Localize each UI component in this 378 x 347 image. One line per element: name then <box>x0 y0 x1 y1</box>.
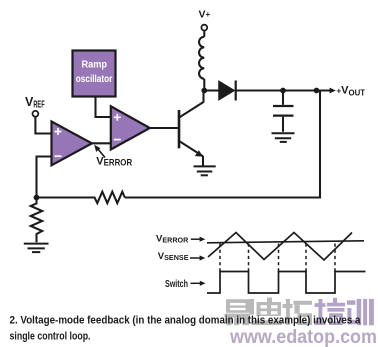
node divider junction <box>34 195 40 201</box>
waveform layer <box>156 233 366 294</box>
ground under divider <box>24 244 49 253</box>
watermark char di <box>250 298 283 326</box>
wire feedback from VOUT down and left to divider <box>125 91 320 198</box>
watermark layer <box>225 298 378 347</box>
label VERROR (waveform) with arrow <box>156 233 205 244</box>
op-amp U2 PWM comparator <box>111 106 150 149</box>
node feedback tap junction <box>314 88 320 94</box>
label Switch with arrow <box>165 278 206 290</box>
capacitor C1 <box>273 91 294 132</box>
wire diode to output with arrow <box>236 88 336 94</box>
wire VREF to error amp + input <box>35 117 51 134</box>
watermark char tuo <box>283 299 313 325</box>
wire error amp output to comparator - input <box>92 142 111 144</box>
label VERROR with arrow <box>94 145 132 168</box>
node V+ terminal <box>201 25 207 31</box>
Switch square waveform <box>207 272 366 294</box>
inductor L1 <box>199 31 204 91</box>
svg-text:Ramp: Ramp <box>82 60 108 71</box>
transistor Q1 <box>179 91 204 167</box>
resistor R1 feedback (horizontal) <box>37 192 125 204</box>
diode D1 <box>219 81 236 101</box>
dashed crossing lines <box>220 244 335 272</box>
svg-text:www.edatop.com: www.edatop.com <box>229 327 377 347</box>
node capacitor tap junction <box>280 88 286 94</box>
ground under transistor <box>194 166 216 175</box>
resistor R2 to ground (vertical) <box>31 198 43 243</box>
watermark char pei <box>315 298 346 325</box>
caption layer <box>10 315 362 343</box>
node VREF terminal <box>33 111 39 117</box>
watermark char yi <box>225 299 251 325</box>
svg-text:VREF: VREF <box>25 95 45 111</box>
schematic layer <box>24 9 366 253</box>
wire ramp oscillator to comparator + input <box>96 97 111 118</box>
wire feedback node to error amp - input <box>37 157 52 198</box>
wire junction to diode <box>204 89 219 91</box>
VSENSE triangle waveform <box>208 233 352 261</box>
Ramp oscillator U3 <box>73 51 116 97</box>
watermark char xun <box>347 299 374 325</box>
svg-text:V+: V+ <box>199 9 211 21</box>
wire comparator output to transistor base <box>150 127 178 129</box>
label VSENSE (waveform) with arrow <box>158 251 206 262</box>
VERROR level line <box>207 241 364 243</box>
junction node at switch/inductor/diode <box>201 88 207 94</box>
svg-text:VERROR: VERROR <box>96 155 132 167</box>
svg-text:+VOUT: +VOUT <box>337 85 366 98</box>
op-amp U1 error amplifier <box>52 122 92 166</box>
svg-text:VERROR: VERROR <box>156 233 189 244</box>
svg-text:VSENSE: VSENSE <box>158 251 189 262</box>
ground under capacitor <box>272 133 295 142</box>
svg-text:Switch: Switch <box>165 278 188 290</box>
svg-text:2. Voltage-mode feedback (in t: 2. Voltage-mode feedback (in the analog … <box>10 315 362 327</box>
svg-text:oscillator: oscillator <box>76 74 113 85</box>
svg-text:single control loop.: single control loop. <box>10 331 91 343</box>
